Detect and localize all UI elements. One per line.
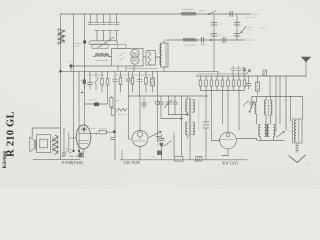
label FB near gang bbox=[75, 44, 81, 47]
capacitor C6 bbox=[234, 23, 240, 26]
capacitor C13 bbox=[142, 98, 147, 109]
paper background bbox=[0, 0, 320, 189]
terminal G1 bbox=[63, 152, 66, 155]
second rail end dashes bbox=[244, 39, 254, 41]
output choke box bbox=[293, 119, 303, 143]
wire rail y90.5 bbox=[201, 90, 245, 92]
capacitor C8 drop bbox=[88, 71, 93, 89]
switch S2 drop bbox=[95, 71, 99, 90]
tuning gang section stubs row 1 bbox=[88, 14, 119, 25]
capacitor C21 above bus bbox=[231, 67, 235, 77]
capacitor C15 bbox=[159, 96, 164, 119]
junction blob bbox=[113, 130, 116, 133]
wire vertical x181.5 bbox=[181, 96, 183, 157]
wire vertical x222.5 low bbox=[222, 91, 224, 125]
capacitor C23 above bus bbox=[242, 67, 246, 77]
switch S4 bbox=[277, 132, 285, 138]
label 10 bbox=[152, 156, 156, 158]
resistor row drop 5 bbox=[222, 76, 224, 91]
capacitor C22 above bus bbox=[236, 67, 240, 77]
resistor R1 drop dark bbox=[84, 71, 86, 79]
electrolytic blob bbox=[160, 143, 163, 146]
capacitor C18 mid bbox=[159, 134, 165, 141]
top rail end dashes bbox=[250, 13, 258, 15]
T1 winding lower bbox=[160, 56, 162, 66]
tube V4 G/R-TA38 envelope bbox=[132, 131, 148, 147]
T2 right winding lower bbox=[193, 122, 195, 135]
T2 primary winding bbox=[186, 100, 188, 113]
svg-text:P-FZR(TA36): P-FZR(TA36) bbox=[62, 161, 84, 165]
T3 winding d bbox=[273, 125, 275, 137]
coil L2 on top rail bbox=[181, 13, 196, 16]
tube V2 circle b bbox=[131, 56, 139, 64]
resistor R2 drop bbox=[101, 71, 103, 92]
component value labels row bbox=[88, 74, 105, 76]
coil L6 bbox=[117, 108, 127, 111]
trimmer arrow bbox=[165, 100, 173, 108]
label a bbox=[284, 100, 287, 102]
tube V5 top stub bbox=[227, 91, 229, 133]
hum coil marks bbox=[67, 149, 72, 153]
speaker frame bars bbox=[35, 140, 36, 149]
resistor row drop 9 bbox=[244, 76, 246, 91]
wire R11 to vertical bbox=[107, 131, 114, 133]
wire connector y114.5 bbox=[169, 114, 188, 116]
wire vertical x280 bbox=[279, 76, 281, 124]
trimmer arrow right bbox=[243, 101, 249, 107]
wire left vertical bbox=[60, 14, 62, 159]
wire dropper x237 bbox=[236, 14, 238, 40]
tube V5 plate wire bbox=[236, 138, 256, 140]
capacitor C7 bbox=[234, 34, 240, 37]
junction dot x79 bbox=[78, 150, 80, 152]
resistor row drop 3 bbox=[211, 76, 213, 91]
capacitor C10 drop long bbox=[126, 71, 131, 139]
oscillator coil L5 box bbox=[146, 51, 156, 66]
label below L6 bbox=[118, 114, 126, 116]
tube V4 top stub bbox=[139, 96, 141, 131]
T1 core bbox=[165, 44, 167, 67]
label below L3 bbox=[184, 44, 206, 46]
output choke feed verticals bbox=[291, 97, 303, 122]
mixer grid arrows bbox=[120, 53, 125, 61]
coil L3 on second rail bbox=[183, 39, 197, 42]
label p10 marks bbox=[219, 24, 223, 35]
T3 core bbox=[266, 124, 269, 137]
potentiometer arrow bbox=[149, 131, 162, 137]
component box dark bbox=[157, 151, 162, 156]
capacitor stack C19 bbox=[203, 122, 209, 128]
label above L2 bbox=[182, 9, 205, 11]
T3 winding b bbox=[265, 125, 267, 137]
wire vertical x157.5 bbox=[157, 71, 159, 142]
resistor R3 drop bbox=[107, 71, 109, 104]
tube V4 electrodes bbox=[134, 140, 146, 142]
wire connector y118.5 bbox=[161, 118, 182, 120]
tube V3 left stub bbox=[70, 137, 77, 139]
tuning gang section stubs row 2 bbox=[95, 31, 120, 41]
wire drops from mixer to bus bbox=[118, 65, 134, 71]
wire second rail y40 bbox=[166, 39, 244, 41]
wire vertical x64 bbox=[63, 128, 65, 152]
shield box label bbox=[92, 44, 108, 49]
mains transformer T3 winding a bbox=[259, 125, 261, 137]
label above R11 bbox=[90, 127, 108, 129]
label +Gl bbox=[248, 28, 266, 31]
capacitor C20 bbox=[249, 97, 254, 109]
resistor R13 hatched on rail bbox=[196, 157, 203, 162]
arrow feather bbox=[157, 140, 163, 147]
label ra bbox=[69, 61, 75, 63]
chassis rail left bbox=[33, 158, 80, 160]
tube V3 anode dot bbox=[83, 128, 86, 131]
junction dot x211 bbox=[210, 39, 212, 41]
capacitor C3 on second rail bbox=[223, 38, 225, 43]
wire vertical x270 bbox=[269, 76, 271, 97]
tube V3 lower chords bbox=[79, 141, 89, 144]
svg-text:G/R-TA38: G/R-TA38 bbox=[124, 161, 140, 165]
speaker cone bbox=[30, 137, 34, 152]
cable tick bbox=[307, 164, 309, 165]
label mA bbox=[288, 130, 292, 132]
wire top rail bbox=[61, 13, 251, 15]
resistor row drop 7 bbox=[233, 76, 235, 91]
tuning gang bus frame bbox=[89, 41, 118, 45]
IF transformer T2 core bbox=[189, 98, 191, 135]
junction blob bbox=[83, 40, 86, 43]
IF transformer T1 box bbox=[161, 43, 169, 67]
capacitor C17 bbox=[173, 96, 178, 115]
tube V5 KW envelope bbox=[220, 132, 237, 149]
junction dot x73.5 bbox=[72, 150, 74, 152]
antenna coil L1 bbox=[58, 29, 65, 44]
tube V3 P-FZR envelope bbox=[76, 125, 91, 149]
wire vertical x286 bbox=[285, 76, 287, 130]
label A7 bbox=[96, 60, 108, 62]
T1 top stub bbox=[163, 40, 165, 43]
resistor row drop 6 bbox=[227, 76, 229, 91]
resistor row drop 1 bbox=[200, 76, 202, 91]
lamp circle bbox=[156, 101, 160, 105]
T1 winding upper bbox=[160, 45, 162, 55]
capacitor C9 long drop bbox=[113, 71, 118, 137]
coil L8 winding pair bbox=[265, 100, 267, 115]
oscillator coil L4 bbox=[95, 53, 109, 56]
small box above mixer bbox=[118, 44, 127, 48]
wire vertical x84.5 bbox=[84, 14, 86, 125]
T2 secondary winding bbox=[186, 122, 188, 135]
box R9 bbox=[111, 108, 115, 115]
meter ticks bbox=[295, 146, 299, 151]
T2 stubs bbox=[187, 96, 190, 160]
wire vertical x68.8 bbox=[68, 133, 70, 148]
tube V5 bottom stub bbox=[222, 149, 228, 156]
tube V2 electrodes bbox=[132, 52, 138, 61]
wire y96 horizontal bbox=[129, 95, 208, 97]
wire y104 left bbox=[85, 103, 95, 105]
chassis rail right bbox=[120, 159, 247, 161]
speaker leads right bbox=[51, 141, 53, 147]
capacitor C16 bbox=[166, 96, 171, 115]
cathode resistor R10 bbox=[79, 153, 83, 158]
wire vertical x79 bbox=[78, 71, 80, 151]
T2 right winding upper bbox=[193, 100, 195, 113]
label P-Z014/36 bbox=[127, 65, 144, 67]
label 7k bbox=[115, 100, 119, 102]
resistor row drop 4 bbox=[216, 76, 218, 91]
field coil winding bbox=[53, 135, 58, 154]
tube V4 anode circle bbox=[138, 132, 143, 137]
wave switch contact blob bbox=[69, 64, 72, 67]
earth stem bbox=[305, 62, 307, 77]
wire vertical x73.5 bbox=[73, 14, 75, 152]
choke winding bbox=[295, 121, 297, 142]
tube V3 bottom stub bbox=[83, 149, 85, 157]
coil L5 winding bbox=[148, 52, 151, 66]
resistor R11 bbox=[99, 130, 107, 134]
meter stub bbox=[296, 143, 298, 153]
capacitor C12 hatched drop bbox=[152, 71, 154, 92]
wire box to coil bbox=[143, 56, 161, 58]
svg-text:R 210 GL: R 210 GL bbox=[6, 111, 17, 157]
speaker inner box bbox=[40, 139, 48, 148]
main bus wire y71 bbox=[61, 70, 219, 72]
capacitor C24 hatched on bus bbox=[263, 70, 267, 76]
resistor R6 drop bbox=[145, 71, 147, 92]
coil L7 winding bbox=[255, 102, 257, 114]
terminal marks row bbox=[62, 155, 79, 157]
tube V3 grid wire across bbox=[79, 133, 97, 135]
wire vertical x239 low bbox=[238, 91, 240, 131]
T1 bottom stub bbox=[163, 67, 165, 71]
tube V4 left wire bbox=[129, 138, 133, 140]
T3 winding c bbox=[268, 125, 270, 137]
capacitor C14 bbox=[111, 138, 116, 161]
resistor R8 vertical bbox=[110, 98, 113, 108]
wire vertical x276 bbox=[275, 76, 277, 132]
T3 bottom rail bbox=[257, 137, 285, 141]
tube V4 bottom stub bbox=[139, 147, 141, 160]
switch S1 on top rail bbox=[208, 13, 210, 15]
wire corner bracket bbox=[121, 151, 123, 160]
mixer box U1 bbox=[112, 49, 144, 67]
svg-text:KW TA3V: KW TA3V bbox=[223, 162, 240, 166]
antenna symbol bbox=[301, 57, 311, 62]
resistor R12 on rail bbox=[175, 157, 184, 162]
wire to mixer box bbox=[93, 56, 112, 58]
wire corner x174 bbox=[156, 133, 174, 157]
switch S3 diagonal bbox=[250, 101, 254, 112]
choke core bbox=[298, 120, 300, 142]
resistor row drop 8 bbox=[238, 76, 240, 91]
arrow over C18 bbox=[165, 141, 172, 147]
resistor R15 below bus bbox=[257, 76, 259, 95]
T2 value label column bbox=[198, 100, 200, 130]
speaker outer box bbox=[37, 135, 51, 153]
bus connector wire bbox=[217, 71, 219, 76]
wire y104 right bbox=[99, 103, 108, 105]
wire dropper x216 bbox=[213, 14, 215, 71]
value labels row right bbox=[198, 73, 245, 75]
tube V2 circle a bbox=[131, 49, 139, 57]
resistor R5 drop bbox=[132, 71, 134, 92]
wire vertical x211.5 low bbox=[212, 91, 220, 141]
capacitor C2 on second rail bbox=[202, 38, 204, 43]
variable capacitor arrow bbox=[98, 37, 115, 48]
resistor row drop 2 bbox=[205, 76, 207, 91]
wire vertical x206 bbox=[205, 91, 207, 122]
V1 arrow symbol bbox=[241, 27, 246, 33]
main bus wire y76 bbox=[196, 75, 306, 77]
capacitor C4 bbox=[211, 23, 217, 26]
mains cable chevron bbox=[289, 155, 306, 163]
junction blob bus left end bbox=[59, 70, 62, 73]
capacitor C25 below bus bbox=[246, 76, 251, 89]
capacitor C5 bbox=[211, 34, 217, 37]
switch tick on x84.5 bbox=[82, 92, 85, 94]
capacitor C1 on top rail bbox=[230, 12, 232, 17]
resistor R7 dark bbox=[94, 103, 99, 107]
resistor R4 drop bbox=[120, 71, 122, 92]
label V1 bbox=[245, 17, 255, 19]
tube V5 electrodes bbox=[221, 139, 236, 141]
wire y66 to mixer bbox=[73, 65, 112, 67]
switch contacts on bus bbox=[243, 69, 245, 71]
capacitor C11 drop bbox=[137, 71, 142, 96]
wire y96.5 right bbox=[252, 96, 303, 98]
label 4M bbox=[89, 99, 97, 101]
speaker top lead bbox=[32, 128, 60, 137]
